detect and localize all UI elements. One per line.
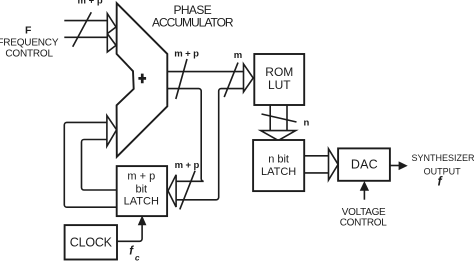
svg-text:n: n <box>303 118 309 129</box>
svg-text:m + p: m + p <box>78 0 103 7</box>
svg-text:F: F <box>25 25 32 37</box>
svg-text:m + p: m + p <box>175 160 200 171</box>
svg-text:LUT: LUT <box>268 78 291 92</box>
svg-text:m + p: m + p <box>174 49 199 60</box>
svg-text:f: f <box>129 246 134 258</box>
svg-text:c: c <box>135 253 140 261</box>
svg-text:m: m <box>234 50 242 61</box>
svg-text:n bit: n bit <box>268 154 289 166</box>
svg-text:FREQUENCY: FREQUENCY <box>0 38 59 49</box>
svg-text:LATCH: LATCH <box>124 195 159 207</box>
svg-text:bit: bit <box>135 184 147 196</box>
svg-text:DAC: DAC <box>351 158 378 172</box>
svg-text:m + p: m + p <box>127 170 155 182</box>
svg-text:SYNTHESIZER: SYNTHESIZER <box>411 153 474 163</box>
svg-text:f: f <box>438 174 444 188</box>
svg-text:CONTROL: CONTROL <box>340 218 388 229</box>
svg-text:ROM: ROM <box>265 65 293 79</box>
svg-text:VOLTAGE: VOLTAGE <box>342 207 386 218</box>
svg-text:OUTPUT: OUTPUT <box>424 167 462 177</box>
svg-text:CLOCK: CLOCK <box>70 235 113 249</box>
svg-text:ACCUMULATOR: ACCUMULATOR <box>152 16 234 30</box>
svg-text:LATCH: LATCH <box>261 166 296 178</box>
svg-text:CONTROL: CONTROL <box>5 49 53 60</box>
